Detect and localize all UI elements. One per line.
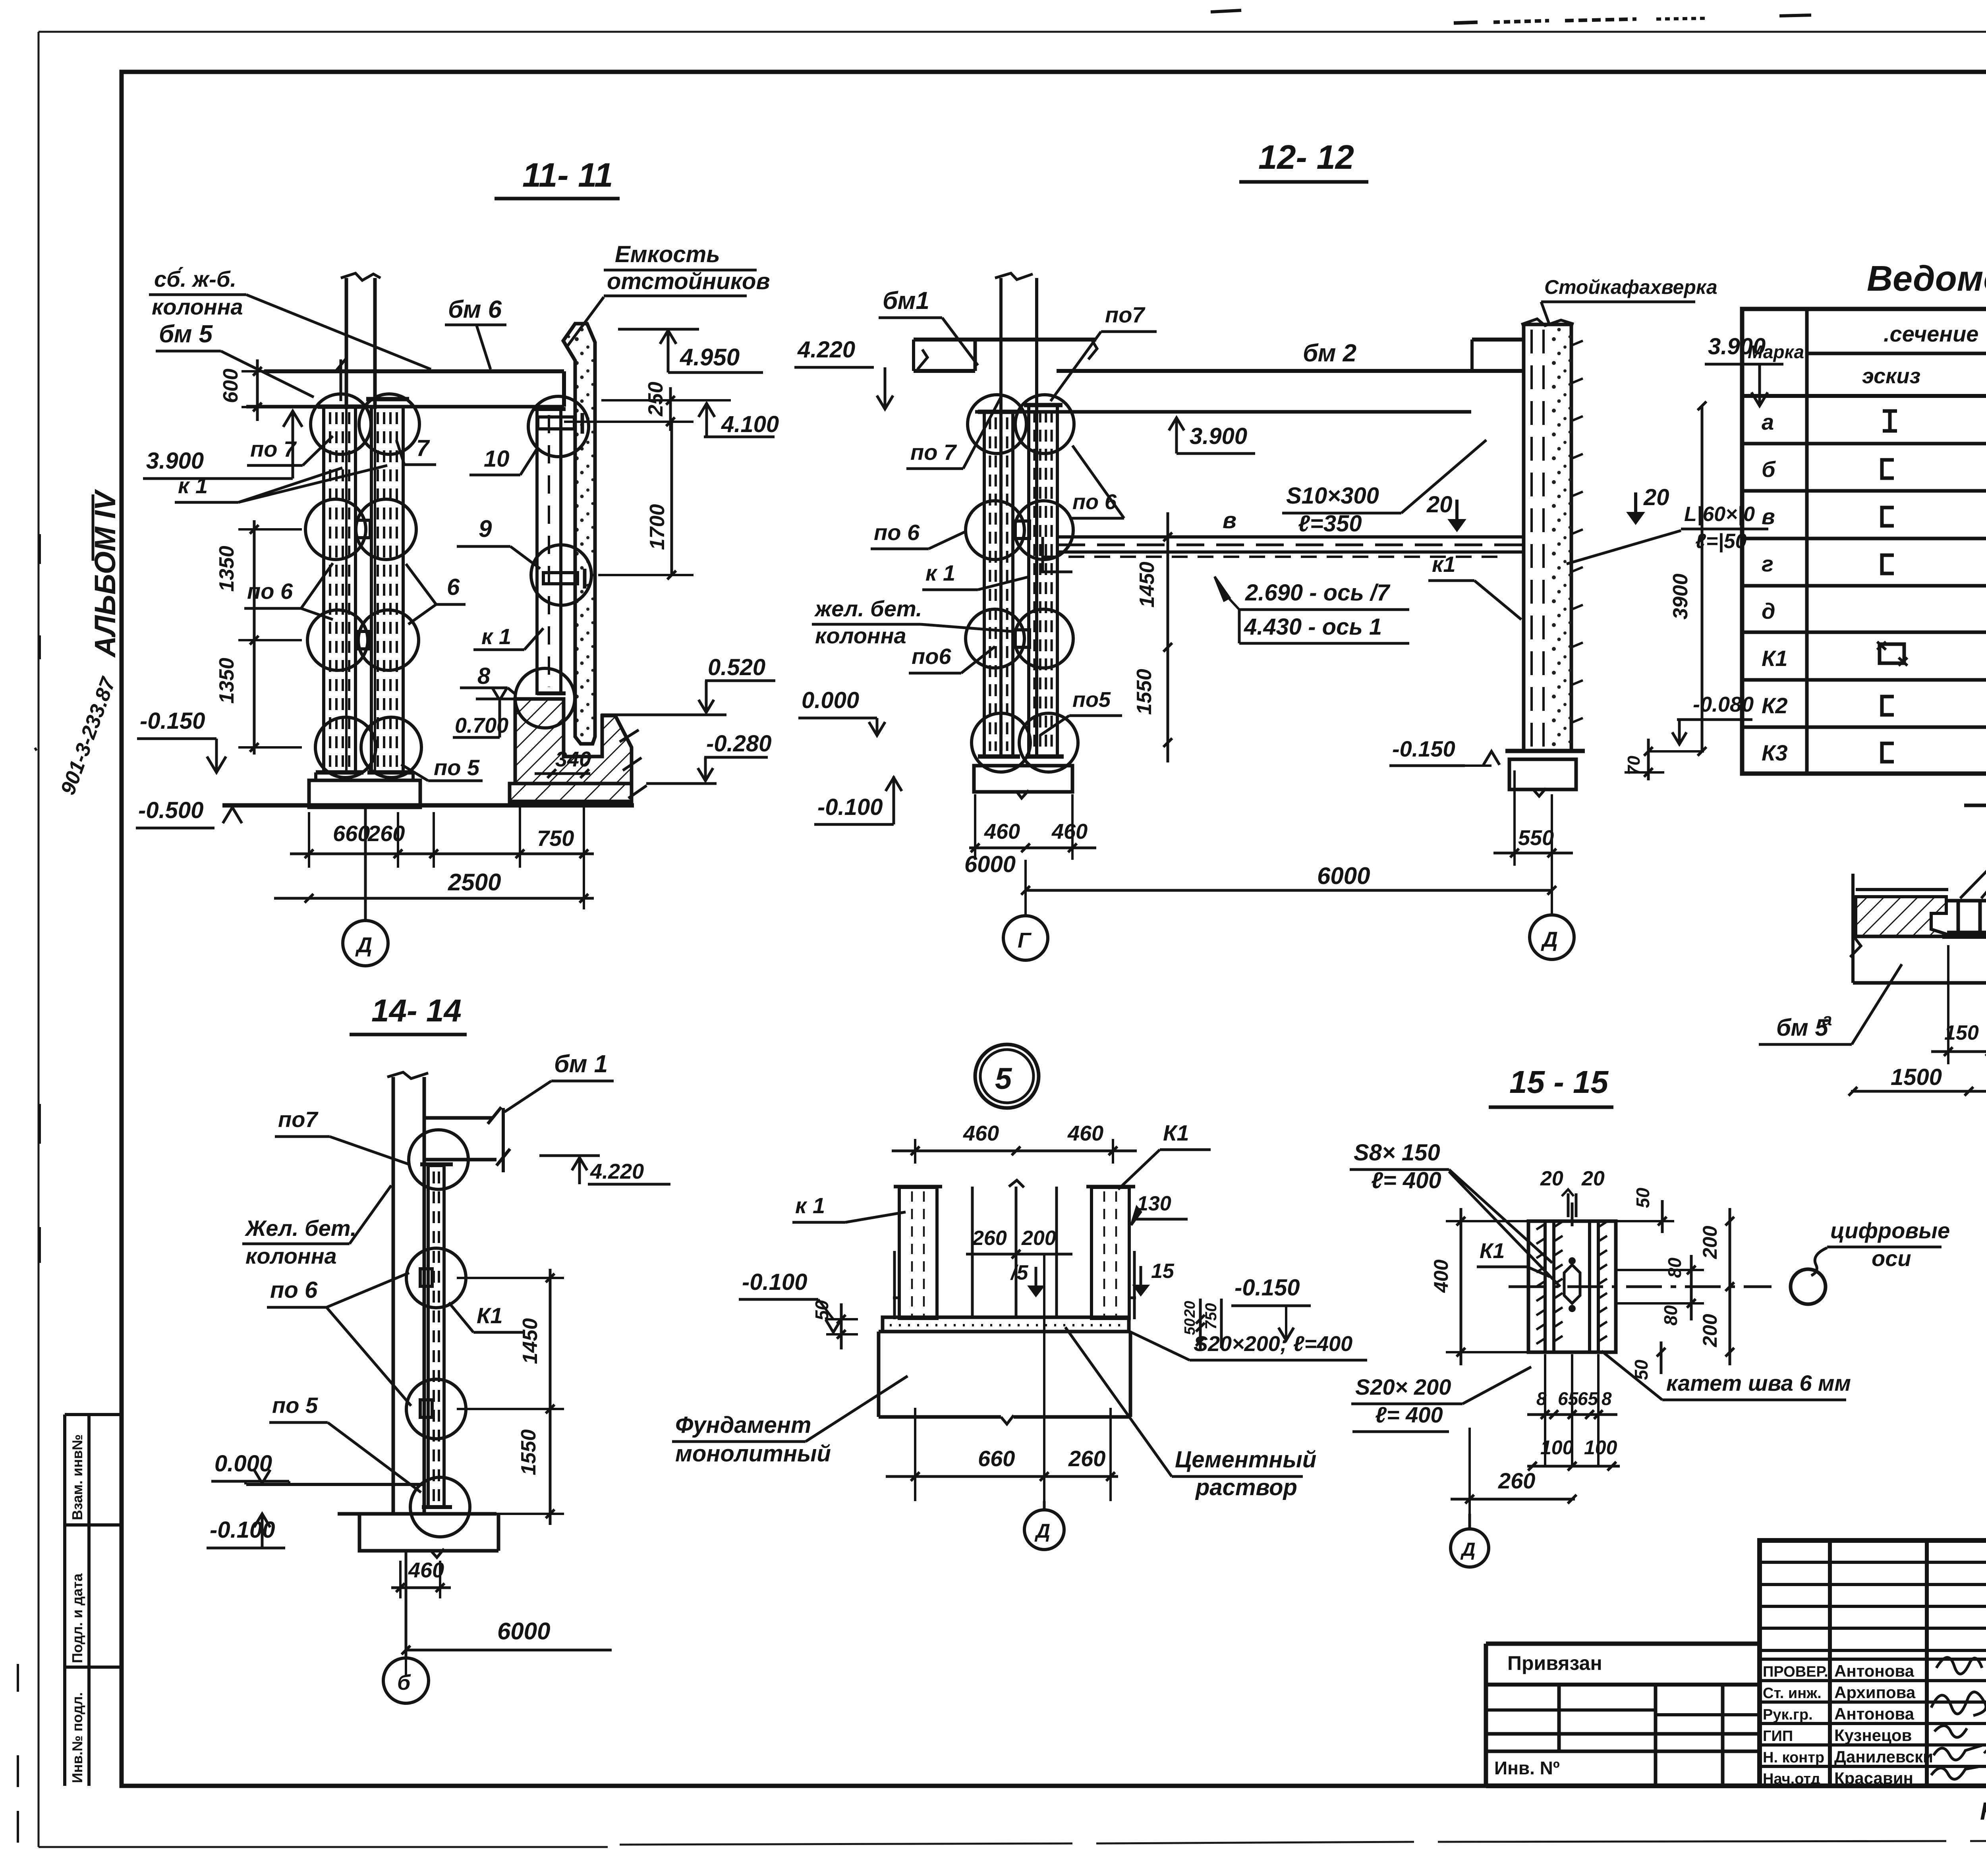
dim 1350 1350 (215, 520, 302, 755)
svg-text:460: 460 (984, 820, 1020, 843)
svg-text:по7: по7 (1105, 302, 1146, 327)
svg-text:200: 200 (1021, 1227, 1056, 1250)
svg-text:жел. бет.: жел. бет. (814, 596, 922, 621)
svg-text:ℓ= 400: ℓ= 400 (1371, 1168, 1441, 1193)
svg-text:20: 20 (1540, 1167, 1563, 1190)
label 7 (396, 435, 436, 465)
svg-text:6000: 6000 (497, 1618, 550, 1644)
svg-text:Н. контр: Н. контр (1763, 1749, 1824, 1766)
13-13 I-beam pair 1 (1942, 901, 1986, 936)
dim 50 node5 left (811, 1300, 858, 1349)
title block main outline (1760, 1540, 1986, 1786)
svg-text:бм 5: бм 5 (1776, 1014, 1829, 1041)
label к1 12-12 left (922, 560, 1030, 590)
svg-text:Привязан: Привязан (1507, 1652, 1602, 1674)
svg-text:S8× 150: S8× 150 (1354, 1140, 1440, 1166)
svg-text:-0.150: -0.150 (1392, 736, 1455, 761)
svg-text:Д: Д (1541, 928, 1558, 952)
svg-text:10: 10 (484, 446, 510, 472)
svg-text:-0.100: -0.100 (742, 1269, 807, 1295)
svg-text:15 - 15: 15 - 15 (1509, 1064, 1609, 1100)
12-12 right col base (1505, 751, 1585, 796)
left steel column 2 (371, 407, 403, 772)
elevation -0.100 node5 (739, 1269, 841, 1332)
svg-text:260: 260 (972, 1227, 1007, 1250)
label g 13-13 (1960, 810, 1986, 898)
dim 550 right (1493, 770, 1573, 866)
svg-text:эскиз: эскиз (1862, 364, 1920, 388)
svg-text:К1: К1 (1480, 1239, 1505, 1263)
label бм6 (445, 296, 506, 369)
label емкость отстойников (567, 241, 770, 346)
14-14 base and foundation (246, 1484, 498, 1558)
title block signature names (1763, 1662, 1933, 1787)
15-15 dim 80 80 inner (1616, 1255, 1704, 1326)
dims 660 260 node5 (886, 1254, 1118, 1501)
svg-text:460: 460 (408, 1558, 444, 1582)
dim 3900 right (1669, 401, 1706, 756)
dim 600 (219, 359, 278, 421)
label к1 node5 right (1118, 1120, 1211, 1189)
svg-text:4.950: 4.950 (680, 344, 740, 371)
elevation -0.500 (136, 797, 242, 828)
svg-text:Данилевски: Данилевски (1834, 1747, 1933, 1766)
svg-text:-0.100: -0.100 (817, 794, 883, 820)
node5 left column strip (894, 1187, 942, 1318)
svg-text:20: 20 (1182, 1301, 1198, 1318)
weld mark 20 right (1629, 484, 1669, 523)
elevation -0.150 (137, 708, 226, 772)
15-15 plate body (1528, 1221, 1616, 1352)
label по6 left mid (871, 520, 966, 549)
label цементный раствор (1065, 1327, 1316, 1500)
svg-text:бм 6: бм 6 (448, 296, 502, 323)
12-12 left foundation (974, 766, 1072, 792)
elevation 4.220 14-14 (539, 1156, 670, 1184)
section 15-15 title (1489, 1064, 1613, 1107)
label 130 node5 (1131, 1192, 1188, 1225)
13-13 left channel with hatch (1856, 890, 1948, 936)
label к1 15-15 (1477, 1239, 1550, 1277)
node5 dims 460 460 top (892, 1121, 1137, 1164)
label к1 right 12-12 (1428, 552, 1521, 620)
steel column K1 right (532, 409, 566, 693)
svg-text:оси: оси (1872, 1246, 1911, 1271)
dim 1450 1550 mid (1092, 512, 1184, 762)
13-13 dim 1500 2460 940 (1849, 1064, 1986, 1096)
svg-text:Емкость: Емкость (615, 241, 720, 267)
svg-text:а: а (1822, 1010, 1832, 1029)
svg-text:460: 460 (1051, 820, 1088, 843)
svg-text:5: 5 (995, 1062, 1012, 1096)
svg-text:в: в (1223, 508, 1236, 533)
label по7 14-14 (275, 1107, 409, 1164)
12-12 callout circles left (968, 395, 1026, 454)
label жел бет колонна 14-14 (242, 1185, 391, 1268)
svg-text:660: 660 (978, 1446, 1015, 1471)
13-13 slab band (1850, 874, 1986, 983)
svg-text:750: 750 (537, 826, 574, 851)
svg-text:колонна: колонна (152, 294, 243, 319)
dim 250 right (564, 382, 731, 431)
svg-text:по6: по6 (912, 644, 951, 669)
svg-text:1550: 1550 (517, 1429, 540, 1475)
elevation 0.700 (453, 688, 516, 737)
label по7 (247, 436, 333, 465)
label 9 (457, 515, 540, 569)
svg-text:80: 80 (1660, 1305, 1681, 1326)
svg-text:0.000: 0.000 (802, 687, 859, 713)
label по5 12-12 (1040, 688, 1122, 735)
label по6 lower (909, 644, 995, 673)
svg-text:К3: К3 (1762, 740, 1788, 765)
left margin tick marks (18, 534, 40, 1843)
svg-text:Архипова: Архипова (1834, 1683, 1916, 1702)
label бм1 14-14 (504, 1050, 614, 1112)
svg-text:9: 9 (479, 515, 492, 542)
svg-text:Фундамент: Фундамент (675, 1412, 811, 1438)
dims 200 200 node5 (966, 1227, 1072, 1258)
svg-text:К1: К1 (477, 1303, 503, 1328)
callout circles right wall (528, 396, 589, 457)
svg-text:Рук.гр.: Рук.гр. (1763, 1706, 1813, 1723)
svg-text:по 5: по 5 (272, 1393, 318, 1418)
elevation -0.100 14-14 (207, 1514, 285, 1548)
svg-text:к 1: к 1 (178, 473, 208, 498)
label S10x300 l=350 (1282, 440, 1486, 537)
elevation 3.900 right (1705, 334, 1783, 406)
svg-text:20: 20 (1426, 492, 1453, 517)
svg-text:460: 460 (1067, 1121, 1103, 1145)
svg-text:Антонова: Антонова (1834, 1704, 1915, 1723)
14-14 plates (420, 1269, 432, 1286)
elevation 0.000 14-14 (211, 1451, 289, 1484)
elevation 0.520 (601, 654, 775, 715)
svg-text:колонна: колонна (815, 623, 906, 648)
axis Д circle 15-15 (1451, 1514, 1489, 1567)
label S8x150 l=400 (1350, 1140, 1560, 1287)
label L160x10 l=150 (1567, 503, 1768, 564)
svg-text:4.220: 4.220 (797, 337, 855, 363)
label к1 node5 left (792, 1193, 906, 1222)
dim 460 14-14 (391, 1558, 451, 1598)
node 5 circle (975, 1044, 1039, 1108)
svg-text:ГИП: ГИП (1763, 1728, 1793, 1745)
15-15 dim 400 left (1430, 1208, 1533, 1365)
svg-text:15: 15 (1151, 1260, 1175, 1283)
14-14 steel strip column (420, 1164, 453, 1507)
15-15 dim 260 (1451, 1428, 1576, 1514)
12-12 precast column top (975, 273, 1037, 757)
svg-text:бм 1: бм 1 (554, 1050, 608, 1078)
svg-text:100: 100 (1540, 1436, 1574, 1459)
label жел бет колонна 12-12 (812, 596, 1012, 648)
svg-text:150: 150 (1944, 1021, 1979, 1044)
svg-text:по 6: по 6 (874, 520, 920, 545)
dim 70 right small (1624, 739, 1664, 780)
15-15 axis circle right (1791, 1269, 1826, 1304)
svg-text:200: 200 (1699, 1314, 1721, 1347)
section 11-11 beam бм5/бм6 top band (246, 371, 564, 407)
svg-text:Д: Д (355, 933, 372, 957)
svg-text:Д: Д (1460, 1539, 1476, 1560)
svg-text:Д: Д (1034, 1520, 1050, 1542)
svg-text:3900: 3900 (1669, 573, 1692, 620)
svg-text:катет шва 6 мм: катет шва 6 мм (1666, 1370, 1851, 1395)
svg-text:Подл. и дата: Подл. и дата (69, 1573, 85, 1663)
svg-text:7: 7 (416, 435, 430, 461)
svg-text:1550: 1550 (1133, 669, 1156, 715)
dim 1450 1550 14-14 (457, 1269, 564, 1525)
svg-text:550: 550 (1518, 826, 1554, 850)
svg-text:-0.150: -0.150 (1234, 1275, 1300, 1301)
15-15 dim 50 top right (1616, 1187, 1674, 1233)
weld mark 20 left (1426, 492, 1464, 530)
elevation -0.100 12-12 (814, 776, 902, 824)
svg-text:б: б (1762, 457, 1776, 482)
14-14 callout circles (409, 1130, 468, 1189)
label бм5 (156, 320, 346, 401)
elevation -0.150 12-12 (1389, 736, 1499, 766)
svg-text:50: 50 (1632, 1187, 1653, 1208)
column base plates (316, 770, 363, 775)
column top plates (318, 405, 361, 409)
label цифровые оси (1811, 1218, 1950, 1276)
label по7 lower-left (906, 397, 1001, 469)
node5 base plate band (883, 1317, 1129, 1332)
label по7 top (1051, 302, 1157, 401)
13-13 dims 150 150 400 (1931, 945, 1986, 1064)
dim 340 (535, 747, 591, 778)
svg-text:3.900: 3.900 (1190, 423, 1247, 449)
svg-text:20: 20 (1581, 1167, 1605, 1190)
svg-text:1350: 1350 (215, 658, 238, 704)
svg-text:по 7: по 7 (250, 436, 297, 461)
svg-text:ПРОВЕР.: ПРОВЕР. (1763, 1664, 1828, 1680)
label бм1 (879, 287, 978, 365)
svg-text:14- 14: 14- 14 (371, 993, 462, 1028)
elevation 4.220 left (794, 337, 893, 409)
svg-text:Жел. бет.: Жел. бет. (244, 1216, 356, 1241)
svg-text:в: в (1762, 504, 1775, 529)
svg-text:1700: 1700 (646, 504, 669, 550)
elevation 0.000 12-12 (798, 687, 885, 735)
svg-text:65: 65 (1578, 1388, 1599, 1409)
label по6 (244, 563, 333, 620)
ground line (222, 803, 634, 808)
12-12 connection plates (1015, 521, 1030, 538)
svg-text:-0.500: -0.500 (138, 797, 203, 823)
top edge stray marks (1211, 10, 1986, 23)
svg-text:0.520: 0.520 (708, 654, 765, 680)
section 14-14 title (350, 993, 467, 1035)
svg-text:К1: К1 (1762, 646, 1788, 671)
svg-text:к 1: к 1 (481, 624, 511, 649)
15-15 dims 20 20 top (1540, 1167, 1605, 1217)
12-12 beam бм2 right end (1446, 340, 1524, 371)
svg-text:2.690 - ось /7: 2.690 - ось /7 (1245, 580, 1391, 606)
axis Г circle (1003, 916, 1048, 960)
label 8 (460, 663, 516, 695)
label Копировал Антипова (1980, 1798, 1986, 1825)
14-14 beam stub right (425, 1107, 510, 1172)
svg-text:2500: 2500 (448, 869, 501, 896)
svg-text:6000: 6000 (964, 851, 1016, 877)
dims 460 460 12-12 (969, 794, 1096, 860)
svg-text:260: 260 (367, 821, 405, 846)
svg-text:8: 8 (477, 663, 491, 689)
svg-text:Кузнецов: Кузнецов (1834, 1726, 1912, 1745)
svg-text:Антонова: Антонова (1834, 1662, 1915, 1680)
svg-text:колонна: колонна (245, 1243, 337, 1268)
pedestal under columns (309, 780, 420, 807)
14-14 concrete column (387, 1072, 428, 1514)
15-15 dims 8 65 65 8 (1527, 1354, 1617, 1466)
svg-text:сб́. ж-б.: сб́. ж-б. (154, 266, 236, 291)
svg-text:S20× 200: S20× 200 (1355, 1374, 1451, 1399)
svg-text:Г: Г (1018, 928, 1032, 952)
svg-text:к 1: к 1 (795, 1193, 825, 1218)
label по6 upper right leader (1069, 446, 1124, 518)
12-12 left steel column strips (984, 412, 1013, 757)
label по 5 11-11 (401, 755, 483, 781)
svg-text:400: 400 (1430, 1259, 1452, 1293)
svg-text:Цементный: Цементный (1175, 1447, 1316, 1473)
label 6 (406, 564, 466, 624)
svg-text:65: 65 (1558, 1388, 1579, 1409)
label бм 5а (1759, 964, 1902, 1044)
label по6 14-14 (267, 1273, 411, 1406)
table col Марка values (1762, 409, 1788, 765)
svg-text:Инв. Nº: Инв. Nº (1494, 1758, 1560, 1778)
svg-text:д: д (1762, 598, 1775, 623)
svg-text:по 6: по 6 (247, 579, 293, 604)
15-15 dim 50 bottom (1631, 1341, 1665, 1380)
svg-text:К2: К2 (1762, 693, 1788, 718)
svg-text:г: г (1762, 551, 1773, 576)
svg-text:200: 200 (1699, 1226, 1721, 1259)
section 12-12 title (1239, 139, 1368, 182)
svg-text:100: 100 (1584, 1436, 1617, 1459)
svg-text:1450: 1450 (519, 1318, 542, 1364)
elevation 4.100 right (699, 403, 779, 437)
15-15 dims 100 100 (1527, 1436, 1620, 1471)
svg-text:.сечение: .сечение (1884, 321, 1978, 346)
node5 foundation block (879, 1332, 1130, 1424)
elevation 4.950 right (618, 329, 763, 372)
svg-text:бм1: бм1 (883, 287, 929, 315)
svg-text:260: 260 (1068, 1446, 1105, 1471)
section 11-11 title (495, 156, 620, 199)
precast column top (сб ж-б колонна) (341, 273, 381, 770)
label к1 14-14 (449, 1303, 525, 1332)
15-15 small weld detail center (1564, 1257, 1580, 1312)
svg-text:0.000: 0.000 (214, 1451, 272, 1476)
svg-text:1450: 1450 (1136, 562, 1159, 608)
dims 660 260 750 (290, 803, 594, 909)
wall footing hatched (510, 699, 647, 801)
dim 6000 line (1021, 794, 1556, 915)
elevation 3.900 mid (1169, 417, 1255, 454)
axis б circle 14-14 (383, 1551, 429, 1703)
dim 6000 14-14 (402, 1561, 612, 1675)
label катет шва 6мм (1602, 1351, 1851, 1400)
svg-text:по7: по7 (278, 1107, 319, 1132)
section 13-13 title (1964, 764, 1986, 805)
15-15 hatch ticks on flanges (1536, 1222, 1607, 1344)
svg-text:-0.280: -0.280 (706, 731, 771, 757)
svg-text:к 1: к 1 (925, 560, 955, 585)
node5 anchor details (893, 1251, 1136, 1319)
svg-text:12- 12: 12- 12 (1258, 139, 1354, 176)
svg-text:Красавин: Красавин (1834, 1769, 1913, 1787)
label к1 right (473, 624, 543, 650)
svg-text:Ст. инж.: Ст. инж. (1763, 1685, 1822, 1702)
svg-text:340: 340 (555, 747, 591, 771)
svg-text:20: 20 (1643, 484, 1669, 510)
svg-text:6000: 6000 (1317, 863, 1370, 889)
svg-text:600: 600 (219, 369, 242, 403)
svg-text:по 6: по 6 (1072, 490, 1117, 514)
svg-text:К1: К1 (1163, 1120, 1189, 1145)
svg-text:по 6: по 6 (270, 1277, 318, 1303)
svg-text:Ведомость элементов: Ведомость элементов (1867, 259, 1986, 299)
svg-text:цифровые: цифровые (1830, 1218, 1950, 1243)
svg-text:S10×300: S10×300 (1286, 483, 1379, 509)
svg-text:3.900: 3.900 (146, 448, 204, 474)
svg-text:460: 460 (963, 1121, 999, 1145)
svg-text:монолитный: монолитный (675, 1441, 831, 1467)
tank wall (емкость отстойников) (563, 324, 595, 744)
svg-text:по 7: по 7 (910, 440, 957, 465)
15-15 dim 200 200 right (1699, 1208, 1734, 1365)
dims 50 20 750 node5 right small (1182, 1299, 1221, 1350)
elevation 3.900 left (143, 411, 302, 479)
label сб ж-б колонна (149, 266, 431, 369)
table headers (1748, 321, 1986, 395)
svg-text:6: 6 (447, 574, 460, 600)
table grid (1742, 309, 1986, 774)
table sketches column (1877, 411, 1907, 762)
svg-text:/5: /5 (1010, 1261, 1028, 1284)
label S20x200 l=400 15-15 (1351, 1367, 1531, 1432)
svg-text:S20×200; ℓ=400: S20×200; ℓ=400 (1194, 1332, 1352, 1356)
svg-text:4.430 - ось 1: 4.430 - ось 1 (1244, 614, 1382, 640)
svg-text:Копировал: Антиповь: Копировал: Антиповь (1980, 1798, 1986, 1825)
left margin attribute strip (65, 1415, 122, 1786)
weld 15 marks node5 (1010, 1260, 1175, 1295)
label по5 14-14 (269, 1393, 421, 1492)
12-12 left col top/base plates (978, 410, 1018, 414)
svg-text:8: 8 (1602, 1388, 1612, 1409)
svg-text:ℓ=350: ℓ=350 (1298, 511, 1362, 537)
svg-text:Марка: Марка (1748, 342, 1804, 362)
svg-text:80: 80 (1664, 1257, 1685, 1278)
svg-text:1500: 1500 (1891, 1064, 1942, 1090)
node5 center axis lines (972, 1180, 1057, 1318)
svg-text:отстойников: отстойников (607, 268, 770, 294)
svg-text:4.100: 4.100 (721, 411, 779, 437)
12-12 right fachwerk column (1521, 319, 1583, 751)
callout circles left columns (311, 394, 371, 454)
svg-text:11- 11: 11- 11 (522, 156, 613, 194)
svg-text:ℓ= 400: ℓ= 400 (1375, 1402, 1443, 1427)
svg-text:по5: по5 (1072, 688, 1111, 712)
svg-text:260: 260 (1498, 1468, 1535, 1493)
svg-text:50: 50 (811, 1300, 832, 1320)
signature squiggles (1931, 1658, 1986, 1779)
svg-text:Инв.№ подл.: Инв.№ подл. (69, 1692, 85, 1783)
